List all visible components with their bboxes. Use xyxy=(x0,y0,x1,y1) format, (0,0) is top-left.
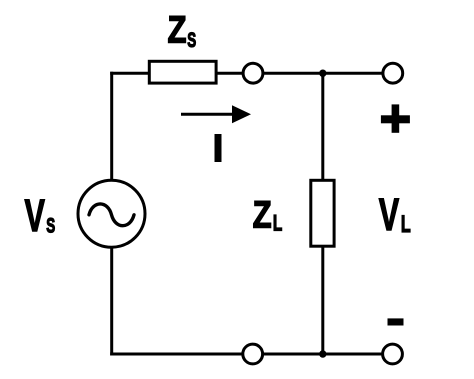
wire ZL vertical upper xyxy=(321,73,324,181)
svg-text:Z: Z xyxy=(253,195,272,237)
wire left vertical lower xyxy=(110,247,113,356)
wire bottom horizontal (source to bottom-left terminal) xyxy=(110,353,242,356)
terminal bottom-right port xyxy=(383,344,403,364)
svg-text:S: S xyxy=(46,213,55,237)
wire top-left horizontal (source to ZS) xyxy=(110,72,150,75)
terminal top-right port xyxy=(383,63,403,83)
voltage source VS xyxy=(78,180,145,247)
label I xyxy=(215,134,222,162)
wire junction to top-right terminal xyxy=(323,72,383,75)
wire left vertical upper xyxy=(110,72,113,181)
svg-text:Z: Z xyxy=(168,10,187,52)
label ZL xyxy=(253,195,283,237)
resistor ZS xyxy=(149,61,216,83)
wire bottom-left terminal to junction xyxy=(264,353,323,356)
svg-text:S: S xyxy=(187,28,196,52)
label ZS xyxy=(168,10,197,52)
svg-text:L: L xyxy=(273,212,282,236)
node junction top xyxy=(319,70,326,77)
label VS xyxy=(25,191,56,241)
svg-text:V: V xyxy=(25,191,46,241)
wire ZS to top-left terminal xyxy=(217,72,244,75)
impedance ZL xyxy=(311,180,334,246)
minus sign xyxy=(388,318,404,325)
label VL xyxy=(379,190,411,240)
node junction bottom xyxy=(319,350,326,357)
wire ZL vertical lower xyxy=(321,247,324,355)
terminal bottom-left port xyxy=(243,344,263,364)
wire terminal to junction xyxy=(264,72,323,75)
plus sign xyxy=(381,104,410,132)
terminal top-left port xyxy=(243,63,263,83)
svg-text:V: V xyxy=(379,190,400,240)
svg-text:L: L xyxy=(401,212,411,238)
wire junction to bottom-right terminal xyxy=(323,353,382,356)
current arrow xyxy=(181,105,251,123)
